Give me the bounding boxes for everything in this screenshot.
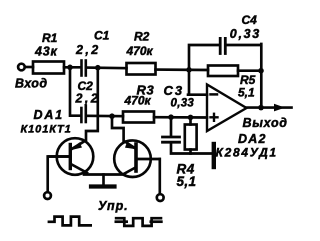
wire R2 to R5: [156, 68, 209, 71]
wire minus input: [188, 93, 207, 96]
wire right vertical to output: [260, 44, 263, 108]
wire C3 bottom to DA2 stub: [171, 144, 212, 154]
transistor DA1.2 circle: [114, 140, 151, 177]
svg-text:DA1: DA1: [34, 108, 64, 122]
control waveform glyph 2 mid dash right: [150, 220, 163, 223]
output arrowhead: [274, 104, 285, 112]
svg-text:2,2: 2,2: [75, 91, 101, 105]
node Z junction dot: [109, 113, 115, 119]
wire R4 top lead: [189, 118, 192, 125]
capacitor C2: [80, 108, 83, 122]
svg-text:R2: R2: [134, 30, 150, 44]
svg-text:DA2: DA2: [238, 132, 267, 146]
node Y junction dot: [95, 65, 101, 71]
svg-text:Выход: Выход: [243, 116, 288, 130]
wire C2 to R3: [87, 114, 123, 117]
capacitor C3: [163, 136, 180, 139]
resistor R3: [123, 112, 154, 123]
wire collectors common: [84, 173, 125, 176]
svg-text:Вход: Вход: [15, 76, 47, 90]
wire C1 to R2: [87, 66, 127, 69]
wire node Z down to right emitter: [112, 117, 124, 142]
wire DA1.1 base to control terminal 1: [48, 157, 69, 192]
svg-text:C1: C1: [94, 29, 110, 43]
svg-text:К101КТ1: К101КТ1: [21, 123, 72, 135]
transistor DA1.2 emitter with arrow: [125, 142, 135, 149]
resistor R5: [208, 66, 238, 77]
svg-text:5,1: 5,1: [238, 86, 255, 100]
wire R1 to C1: [64, 66, 80, 69]
control waveform glyph 1: [48, 217, 92, 226]
node X junction dot: [67, 65, 73, 71]
svg-text:5,1: 5,1: [177, 174, 197, 189]
transistor DA1.1 emitter with arrow: [71, 141, 85, 150]
wire C4 to right vertical: [227, 44, 261, 47]
transistor DA1.2 collector: [125, 168, 136, 174]
input terminal Вход: [18, 64, 25, 71]
transistor DA1.1 base bar: [69, 145, 72, 169]
wire DA1.1 base lead: [49, 155, 69, 158]
wire C2 branch vertical left: [70, 68, 80, 116]
svg-text:0,33: 0,33: [171, 97, 195, 109]
resistor R2: [127, 63, 156, 75]
svg-text:0,33: 0,33: [230, 27, 261, 41]
capacitor C4: [219, 38, 222, 53]
ground: [102, 175, 105, 186]
wire DA1.2 base lead: [137, 158, 160, 161]
control waveform glyph 2 mid dash left: [115, 220, 129, 223]
node C3 tap dot: [168, 114, 174, 120]
wire output with arrow: [247, 106, 292, 109]
wire C3 tap down: [170, 117, 173, 135]
wire DA1.2 base to control terminal 2: [158, 159, 161, 194]
transistor DA1.1 circle: [57, 138, 94, 175]
wire feedback vertical: [189, 45, 219, 95]
wire R5 to output vertical: [238, 69, 261, 72]
svg-text:С3: С3: [164, 83, 185, 98]
node feedback junction dot: [186, 67, 192, 73]
node R5 right junction dot: [258, 68, 264, 74]
DA2 pin stub bar: [212, 144, 216, 167]
control waveform glyph 2: [115, 218, 163, 226]
svg-text:R1: R1: [42, 31, 58, 45]
node R4 tap dot: [188, 115, 194, 121]
svg-text:Упр.: Упр.: [98, 199, 129, 213]
op-amp DA2 inverting input minus sign: [211, 93, 218, 96]
control terminal 1: [44, 192, 51, 199]
svg-text:470к: 470к: [126, 44, 154, 58]
op-amp DA2 triangle: [207, 85, 247, 132]
wire input to R1: [26, 66, 34, 69]
wire R4 bottom lead: [189, 150, 192, 154]
output junction dot: [258, 105, 264, 111]
control terminal 2: [157, 194, 164, 201]
transistor DA1.1 collector: [71, 164, 87, 173]
svg-text:C4: C4: [242, 13, 258, 27]
capacitor C1: [80, 61, 83, 76]
svg-text:43к: 43к: [34, 45, 58, 59]
wire node Y down to left emitter: [86, 68, 98, 141]
op-amp DA2 non-inverting input plus sign: [211, 116, 218, 118]
wire R3 to plus input: [154, 116, 207, 119]
svg-text:2,2: 2,2: [75, 43, 101, 57]
transistor DA1.2 base bar: [134, 144, 138, 171]
svg-text:470к: 470к: [124, 94, 152, 108]
resistor R1: [33, 62, 64, 74]
svg-text:К284УД1: К284УД1: [216, 146, 278, 160]
resistor R4 vertical: [185, 125, 197, 150]
